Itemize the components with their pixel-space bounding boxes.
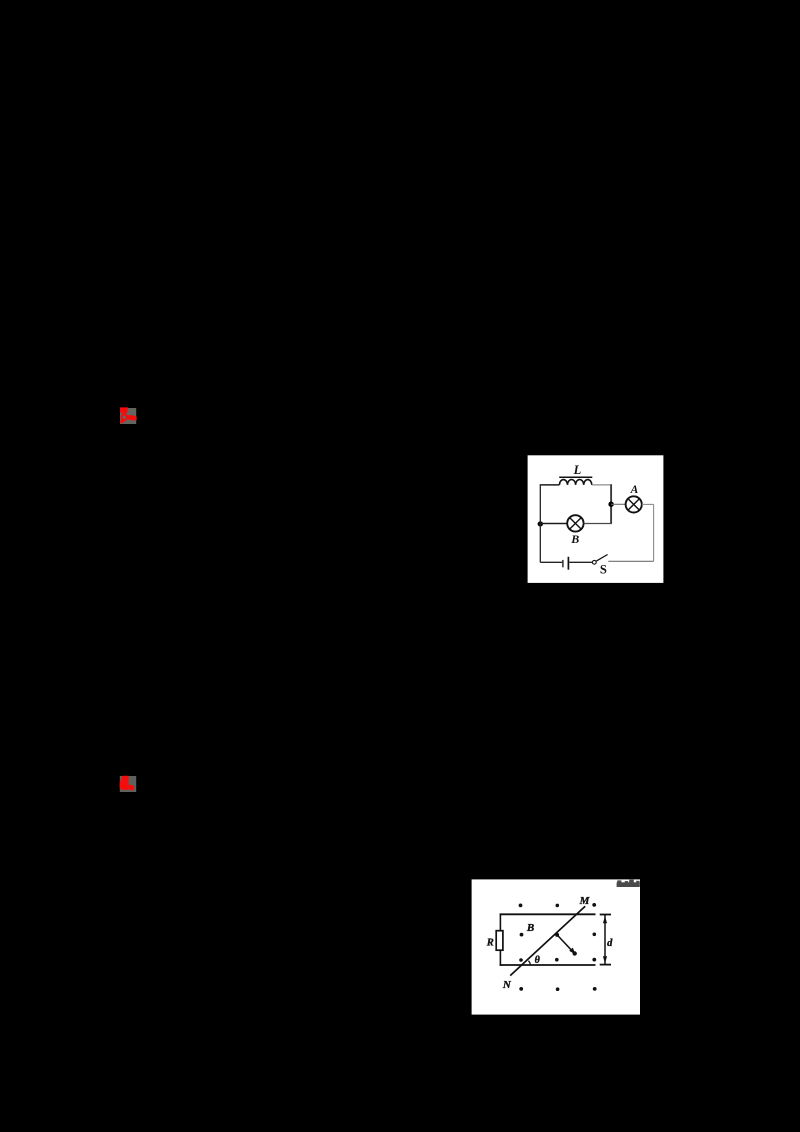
- svg-text:d: d: [607, 938, 613, 949]
- battery negative plate (short): [562, 560, 564, 567]
- wire: middle left (node to lamp B): [540, 523, 567, 525]
- angle arc theta: [528, 961, 530, 965]
- svg-text:θ: θ: [535, 955, 541, 966]
- wire: bottom left to battery: [540, 561, 562, 563]
- field dot row4 b: [556, 987, 560, 991]
- svg-text:S: S: [600, 562, 607, 576]
- svg-text:M: M: [579, 895, 591, 907]
- bottom rail: [500, 964, 596, 966]
- field dot row1 b: [556, 904, 560, 908]
- field dot row3 b: [555, 958, 559, 962]
- field dot row2 b: [593, 933, 597, 937]
- switch S blade: [596, 555, 607, 562]
- svg-text:L: L: [573, 463, 582, 477]
- grey watermark artifact: [617, 880, 640, 887]
- left rail wire: [499, 914, 501, 966]
- wire: inductor to top-right corner (grey): [592, 484, 611, 486]
- wire: switch to bottom-right corner (grey): [608, 560, 653, 562]
- field dot row4 a: [519, 987, 523, 991]
- wire: node to lamp A: [611, 503, 626, 505]
- rod MN: [510, 906, 585, 975]
- battery positive plate (long): [567, 557, 569, 570]
- wire: top-left horizontal (to inductor): [540, 484, 559, 486]
- panel 2 white background: [472, 879, 640, 1014]
- svg-text:B: B: [570, 532, 579, 546]
- svg-text:N: N: [502, 979, 512, 991]
- underline under L: [559, 476, 592, 478]
- resistor R: [496, 931, 503, 951]
- lamp B: [567, 515, 583, 531]
- wire: left vertical: [539, 484, 541, 562]
- node junction dot: [608, 502, 613, 507]
- svg-text:A: A: [630, 484, 639, 496]
- wire: battery to switch: [569, 561, 592, 563]
- field dot row3 a: [519, 958, 523, 962]
- rod midpoint node dot: [555, 933, 559, 937]
- velocity v arrow: [557, 935, 577, 956]
- svg-text:R: R: [486, 938, 494, 949]
- svg-text:B: B: [526, 922, 534, 934]
- node dot left middle: [538, 521, 543, 526]
- inductor L: [559, 479, 591, 484]
- field dot row1 c: [592, 903, 596, 907]
- panel 1 white background: [528, 455, 664, 583]
- dimension d line: [600, 915, 611, 965]
- field dot row1 a: [519, 904, 523, 908]
- red marker icon 2 (acrobat badge): [120, 776, 137, 792]
- switch S pivot circle: [592, 560, 596, 564]
- wire: right vertical (top-right corner down to middle wire): [610, 484, 612, 523]
- field dot row4 c: [593, 987, 597, 991]
- wire: right outer vertical down: [653, 504, 655, 561]
- red marker icon 1 (acrobat badge): [120, 407, 137, 424]
- lamp A: [626, 496, 642, 512]
- top rail: [500, 913, 596, 915]
- field dot row3 c: [592, 958, 596, 962]
- field dot row2 a: [520, 933, 524, 937]
- wire: lamp B to right vertical: [584, 523, 612, 525]
- wire: lamp A to right corner: [642, 503, 654, 505]
